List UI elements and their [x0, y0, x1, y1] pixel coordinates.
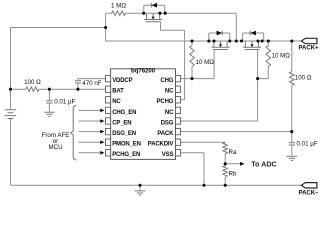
- svg-text:PMON_EN: PMON_EN: [112, 142, 141, 148]
- svg-text:VSS: VSS: [162, 152, 174, 158]
- svg-text:1 MΩ: 1 MΩ: [111, 3, 126, 10]
- svg-text:PACK: PACK: [157, 131, 174, 137]
- svg-text:DSG_EN: DSG_EN: [112, 131, 136, 137]
- svg-text:CP_EN: CP_EN: [112, 120, 131, 126]
- svg-text:MCU: MCU: [48, 144, 62, 151]
- svg-text:10 MΩ: 10 MΩ: [272, 53, 291, 60]
- svg-text:CHG: CHG: [160, 78, 173, 84]
- svg-text:10 MΩ: 10 MΩ: [196, 59, 215, 66]
- svg-text:PCHG: PCHG: [157, 99, 174, 105]
- svg-text:CHG_EN: CHG_EN: [112, 110, 136, 116]
- svg-text:DSG: DSG: [161, 120, 174, 126]
- svg-text:VDDCP: VDDCP: [112, 78, 132, 84]
- svg-text:NC: NC: [112, 99, 121, 105]
- svg-text:0.01 µF: 0.01 µF: [54, 99, 75, 106]
- svg-text:NC: NC: [165, 110, 174, 116]
- svg-text:bq76200: bq76200: [131, 69, 156, 75]
- svg-text:PACK–: PACK–: [299, 191, 320, 197]
- svg-text:PACK+: PACK+: [298, 45, 319, 51]
- svg-text:To ADC: To ADC: [251, 160, 277, 169]
- svg-text:PACKDIV: PACKDIV: [148, 142, 174, 148]
- svg-text:470 nF: 470 nF: [82, 80, 101, 87]
- svg-text:BAT: BAT: [112, 89, 124, 95]
- svg-text:Ra: Ra: [229, 149, 237, 156]
- svg-text:100 Ω: 100 Ω: [24, 79, 41, 86]
- svg-text:Rb: Rb: [229, 171, 237, 178]
- svg-text:NC: NC: [165, 89, 174, 95]
- svg-text:PCHG_EN: PCHG_EN: [112, 152, 140, 158]
- svg-text:0.01 µF: 0.01 µF: [297, 141, 318, 148]
- svg-text:100 Ω: 100 Ω: [295, 75, 312, 82]
